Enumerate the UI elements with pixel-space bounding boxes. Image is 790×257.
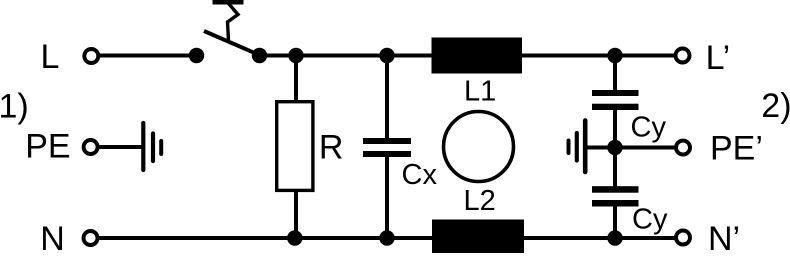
junction node G (PE' tap) <box>607 140 622 155</box>
wire L terminal to switch <box>100 54 197 58</box>
wire L2 to node F <box>524 236 615 240</box>
wire node B to L1 <box>387 54 432 58</box>
svg-text:PE’: PE’ <box>710 130 763 168</box>
wire node D to node E <box>295 236 387 240</box>
svg-text:Cx: Cx <box>402 159 438 191</box>
wire node F to N' terminal <box>615 236 675 240</box>
svg-text:L’: L’ <box>706 39 731 77</box>
inductor L1 body <box>432 38 523 74</box>
junction node E (Cx bottom) <box>379 230 394 245</box>
junction node A (resistor tap) <box>288 48 303 63</box>
capacitor Cy bottom, upper plate <box>592 186 639 193</box>
svg-text:PE: PE <box>25 127 70 165</box>
svg-text:N’: N’ <box>708 220 740 257</box>
svg-text:L2: L2 <box>464 185 496 217</box>
wire resistor down to N rail <box>294 191 298 238</box>
svg-text:2): 2) <box>761 87 790 125</box>
node L terminal <box>84 49 98 63</box>
wire N terminal to node D <box>99 236 294 240</box>
wire node C to L' terminal <box>615 54 674 58</box>
junction node D (resistor bottom) <box>287 230 302 245</box>
node PE' terminal <box>676 141 690 155</box>
wire node B down to Cx <box>385 56 389 140</box>
node N terminal <box>84 231 98 245</box>
capacitor Cx bottom plate <box>363 151 411 157</box>
wire Cx down to N rail <box>385 156 389 238</box>
svg-text:Cy: Cy <box>632 203 668 235</box>
wire PE terminal to ground <box>99 145 142 149</box>
wire switch to node A <box>260 54 297 58</box>
node L' terminal <box>676 49 690 63</box>
ground PE' (earth symbol) <box>569 121 586 173</box>
capacitor Cy top, upper plate <box>592 90 639 96</box>
wire node E to L2 <box>387 236 433 240</box>
wire L1 to node C <box>522 54 615 58</box>
node PE terminal <box>84 140 98 154</box>
wire node G down to Cy bottom <box>613 148 617 188</box>
resistor R body <box>277 102 313 191</box>
svg-text:N: N <box>40 220 65 257</box>
wire node C down to Cy top <box>613 56 617 92</box>
inductor L2 body <box>432 220 524 254</box>
capacitor Cy bottom, lower plate <box>592 200 639 207</box>
svg-text:Cy: Cy <box>631 112 667 144</box>
junction switch right contact <box>252 48 267 63</box>
wire ground to node G <box>587 146 615 150</box>
junction node F (Cy bottom tap) <box>607 230 622 245</box>
ground PE (earth symbol) <box>143 123 161 170</box>
junction switch left contact <box>189 48 204 63</box>
svg-text:L: L <box>41 38 60 76</box>
svg-text:L1: L1 <box>464 75 496 107</box>
wire node A down to resistor <box>294 56 298 102</box>
wire Cy top to node G <box>613 109 617 148</box>
junction node B (Cx tap) <box>379 48 394 63</box>
svg-text:1): 1) <box>0 87 29 125</box>
svg-text:R: R <box>319 128 344 166</box>
switch actuator zigzag <box>226 0 239 41</box>
wire node A to node B <box>296 54 387 58</box>
node N' terminal <box>676 231 690 245</box>
junction node C (Cy top tap) <box>607 48 622 63</box>
switch S blade <box>204 31 257 54</box>
capacitor Cx top plate <box>363 138 411 144</box>
switch actuator bar <box>213 0 244 5</box>
capacitor Cy top, lower plate <box>592 104 639 110</box>
choke core circle <box>444 112 514 182</box>
wire Cy bottom to node F <box>613 206 617 238</box>
wire node G to PE' terminal <box>615 146 675 150</box>
